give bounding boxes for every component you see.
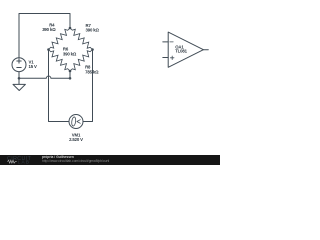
svg-text:390 kΩ: 390 kΩ	[63, 51, 77, 56]
op-amp OA1	[163, 32, 209, 67]
node bridge top	[69, 27, 72, 30]
voltage source V1	[12, 58, 26, 72]
svg-text:390 kΩ: 390 kΩ	[86, 27, 100, 32]
ground	[13, 78, 25, 90]
svg-text:LAB: LAB	[18, 159, 30, 164]
wire V1 bottom to ground rail	[18, 72, 20, 79]
resistor R7	[70, 28, 93, 50]
junction ground rail at bridge bottom	[69, 77, 72, 80]
watermark CircuitLab logo	[7, 156, 32, 165]
wire ground rail with hop over left sense wire	[19, 76, 70, 78]
svg-text:TL081: TL081	[175, 49, 187, 54]
resistor R4	[49, 28, 71, 50]
node bridge left	[47, 48, 50, 51]
node bridge right	[91, 48, 94, 51]
svg-text:390 kΩ: 390 kΩ	[42, 27, 56, 32]
voltmeter VM1	[69, 115, 83, 129]
wire bridge right node to voltmeter right	[83, 50, 93, 122]
resistor R6	[49, 50, 71, 72]
wire V1 top to bridge top node	[19, 14, 70, 58]
svg-text:15 V: 15 V	[29, 64, 38, 69]
node bridge bottom	[69, 70, 72, 73]
watermark bar	[0, 155, 220, 165]
wire bridge bottom node to rail	[69, 71, 71, 78]
junction ground rail at V1	[18, 77, 21, 80]
wire bridge left node to voltmeter left	[49, 50, 70, 122]
svg-text:2.520 V: 2.520 V	[69, 137, 83, 142]
resistor R8	[70, 50, 93, 72]
svg-text:785 kΩ: 785 kΩ	[85, 69, 99, 74]
svg-text:http://www.circuitlab.com/circ: http://www.circuitlab.com/circuit/gmw8fp…	[42, 159, 110, 163]
